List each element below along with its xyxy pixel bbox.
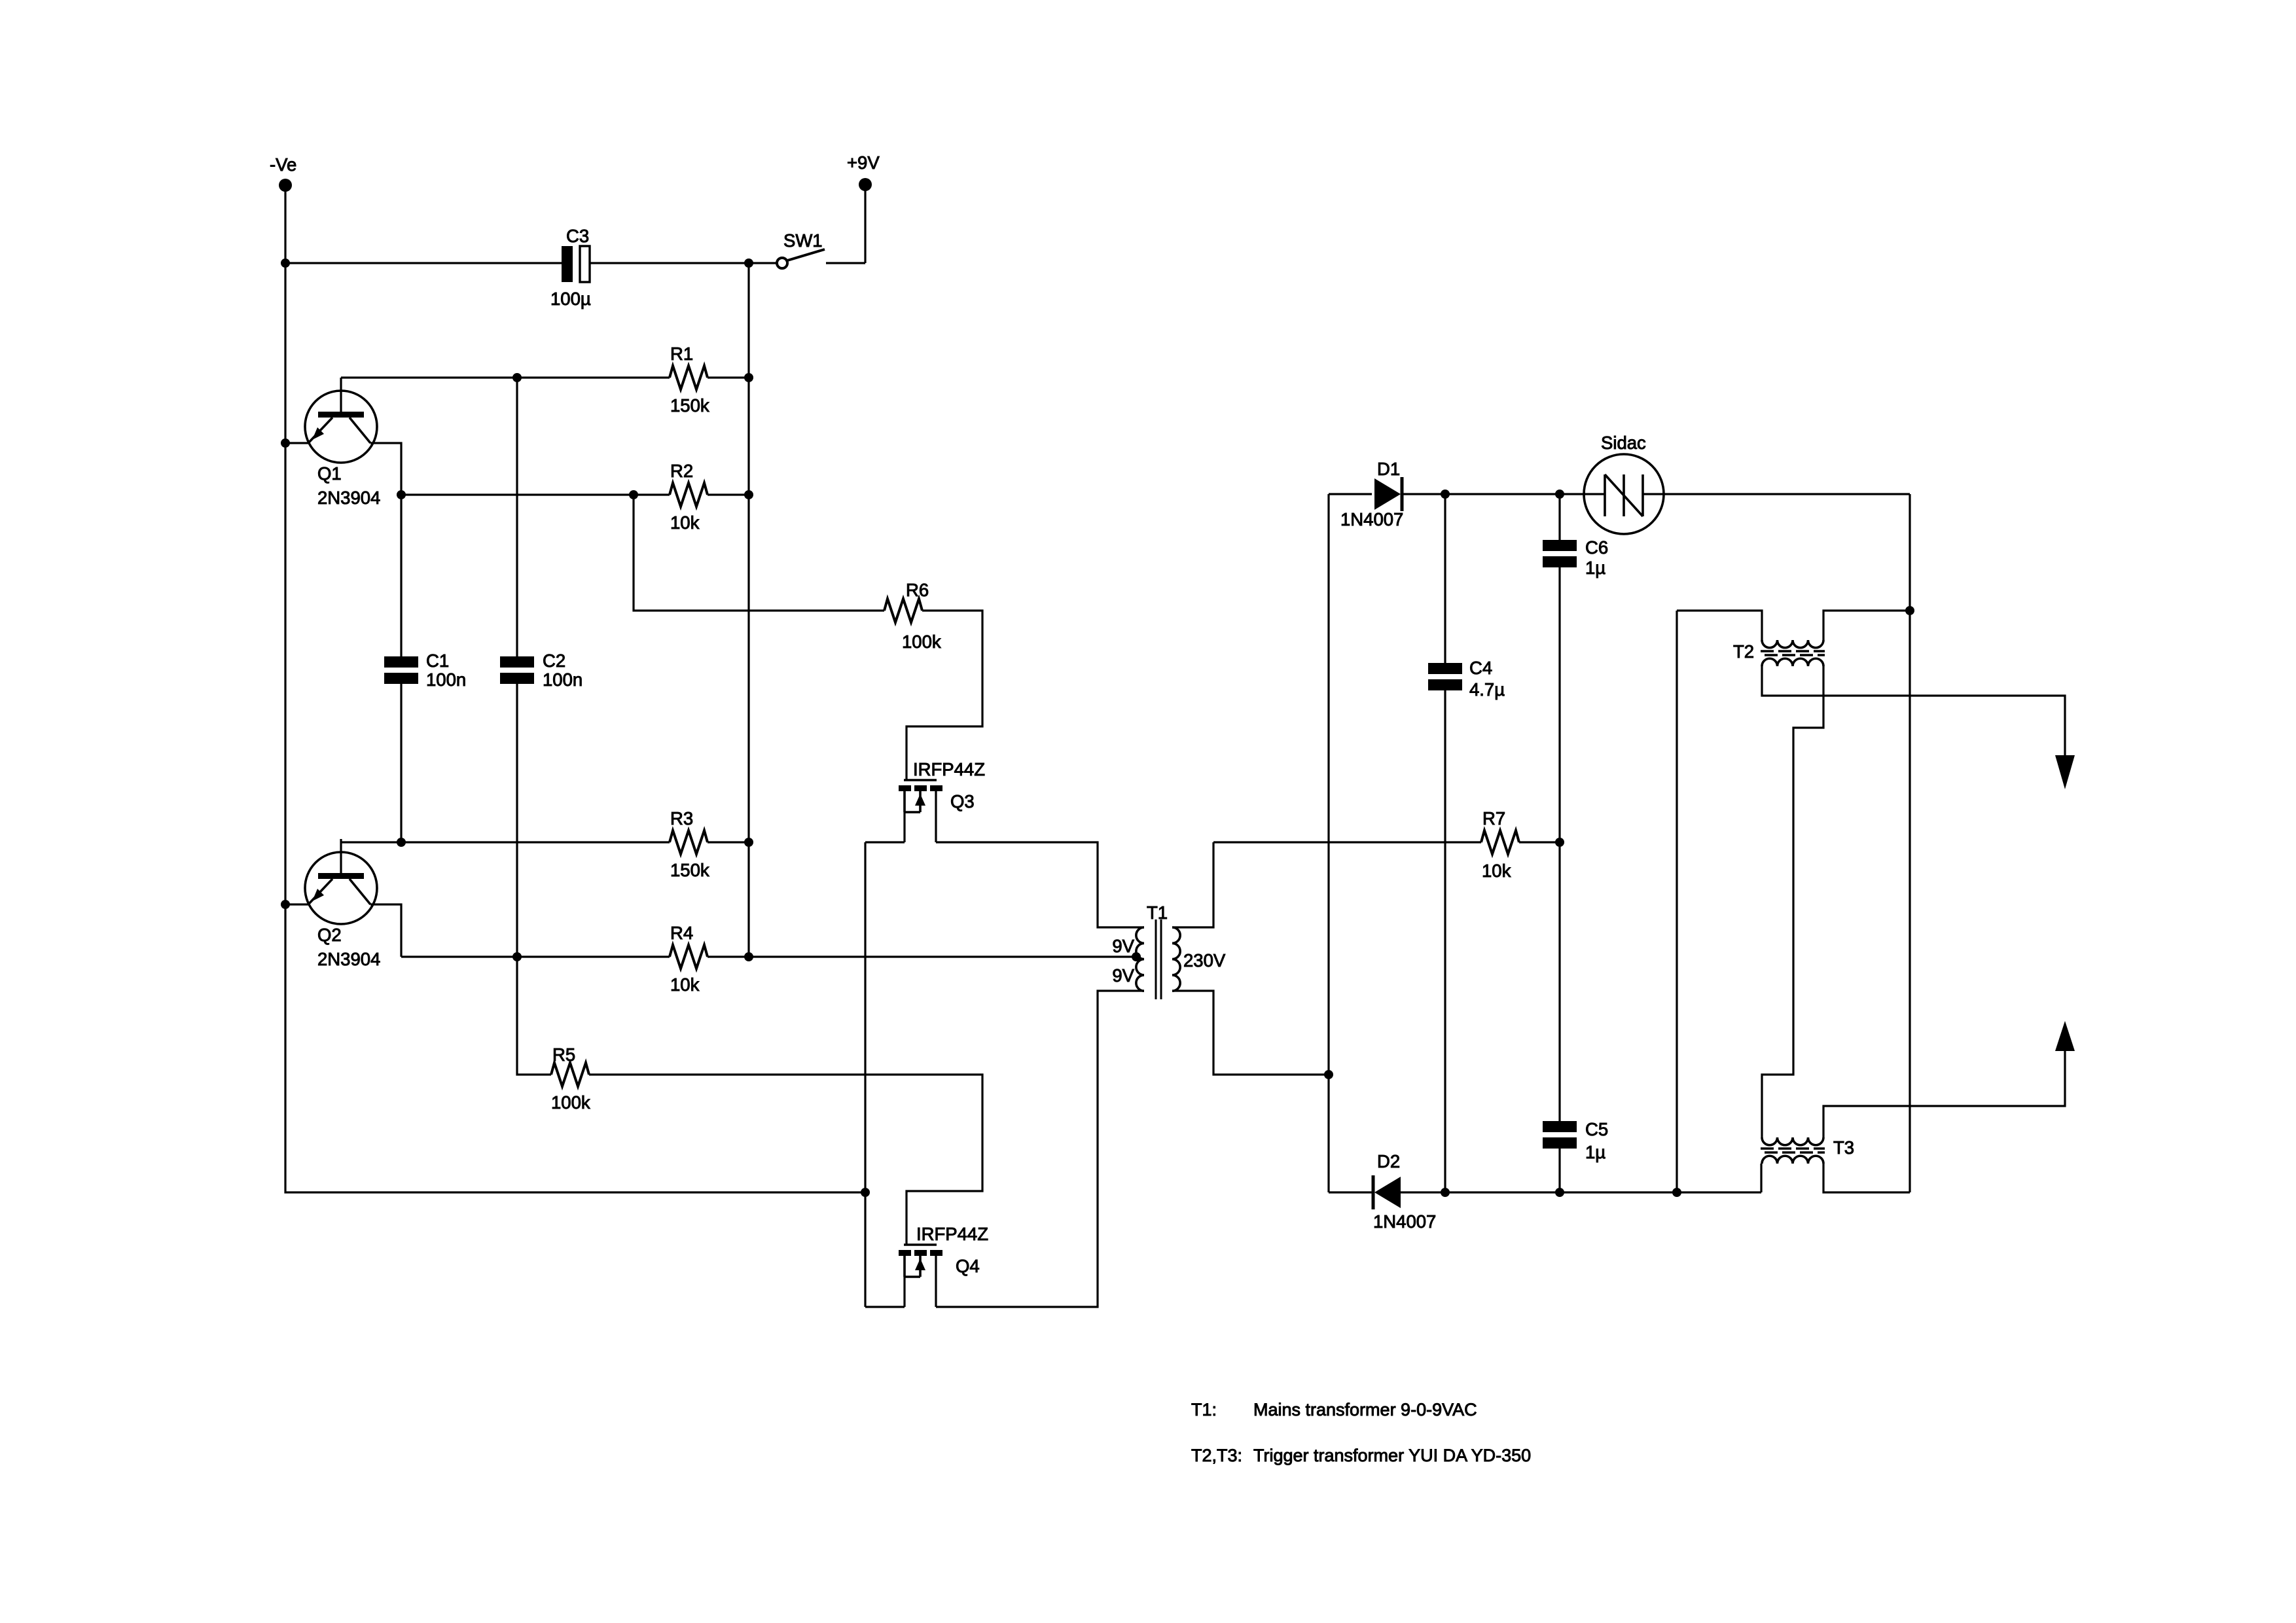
svg-text:100µ: 100µ — [550, 289, 591, 309]
svg-text:150k: 150k — [670, 395, 709, 416]
svg-text:R4: R4 — [670, 923, 693, 943]
svg-text:T2: T2 — [1733, 641, 1754, 662]
svg-text:100n: 100n — [543, 669, 583, 690]
svg-text:9V: 9V — [1112, 936, 1134, 956]
svg-text:1N4007: 1N4007 — [1373, 1211, 1436, 1232]
svg-text:230V: 230V — [1183, 950, 1226, 971]
svg-text:C4: C4 — [1469, 658, 1492, 678]
svg-text:4.7µ: 4.7µ — [1469, 679, 1505, 700]
svg-text:Mains transformer 9-0-9VAC: Mains transformer 9-0-9VAC — [1253, 1400, 1477, 1419]
svg-text:C5: C5 — [1585, 1119, 1608, 1139]
svg-text:100k: 100k — [902, 632, 941, 652]
svg-text:1N4007: 1N4007 — [1340, 509, 1403, 529]
svg-text:R2: R2 — [670, 461, 693, 481]
svg-text:1µ: 1µ — [1585, 558, 1605, 578]
svg-text:9V: 9V — [1112, 965, 1134, 986]
svg-text:2N3904: 2N3904 — [317, 949, 380, 969]
svg-text:T1: T1 — [1147, 902, 1168, 923]
svg-text:Sidac: Sidac — [1601, 433, 1646, 453]
svg-text:C1: C1 — [426, 651, 449, 671]
svg-text:Q3: Q3 — [950, 791, 975, 811]
svg-text:10k: 10k — [670, 974, 700, 995]
svg-text:D1: D1 — [1377, 459, 1400, 479]
svg-text:IRFP44Z: IRFP44Z — [913, 759, 985, 779]
svg-text:10k: 10k — [670, 512, 700, 533]
svg-text:R6: R6 — [906, 580, 929, 600]
svg-text:R1: R1 — [670, 344, 693, 364]
svg-text:R3: R3 — [670, 808, 693, 829]
svg-text:T3: T3 — [1833, 1137, 1854, 1158]
svg-text:100n: 100n — [426, 669, 466, 690]
svg-text:1µ: 1µ — [1585, 1142, 1605, 1162]
svg-text:Q4: Q4 — [956, 1256, 980, 1276]
svg-text:C6: C6 — [1585, 537, 1608, 558]
svg-text:SW1: SW1 — [783, 230, 823, 251]
svg-text:150k: 150k — [670, 860, 709, 880]
svg-text:+9V: +9V — [847, 152, 880, 173]
svg-text:Q1: Q1 — [317, 463, 342, 484]
svg-text:100k: 100k — [551, 1092, 590, 1113]
svg-text:Q2: Q2 — [317, 925, 342, 945]
svg-text:10k: 10k — [1482, 861, 1511, 881]
svg-text:2N3904: 2N3904 — [317, 488, 380, 508]
svg-text:R7: R7 — [1482, 808, 1505, 829]
svg-text:-Ve: -Ve — [270, 154, 296, 175]
svg-text:C3: C3 — [566, 226, 589, 246]
svg-text:Trigger transformer YUI DA YD-: Trigger transformer YUI DA YD-350 — [1253, 1446, 1531, 1465]
svg-text:IRFP44Z: IRFP44Z — [916, 1224, 988, 1244]
svg-text:C2: C2 — [543, 651, 565, 671]
svg-text:R5: R5 — [552, 1044, 575, 1065]
svg-text:T1:: T1: — [1191, 1400, 1217, 1419]
svg-text:T2,T3:: T2,T3: — [1191, 1446, 1242, 1465]
svg-text:D2: D2 — [1377, 1151, 1400, 1171]
